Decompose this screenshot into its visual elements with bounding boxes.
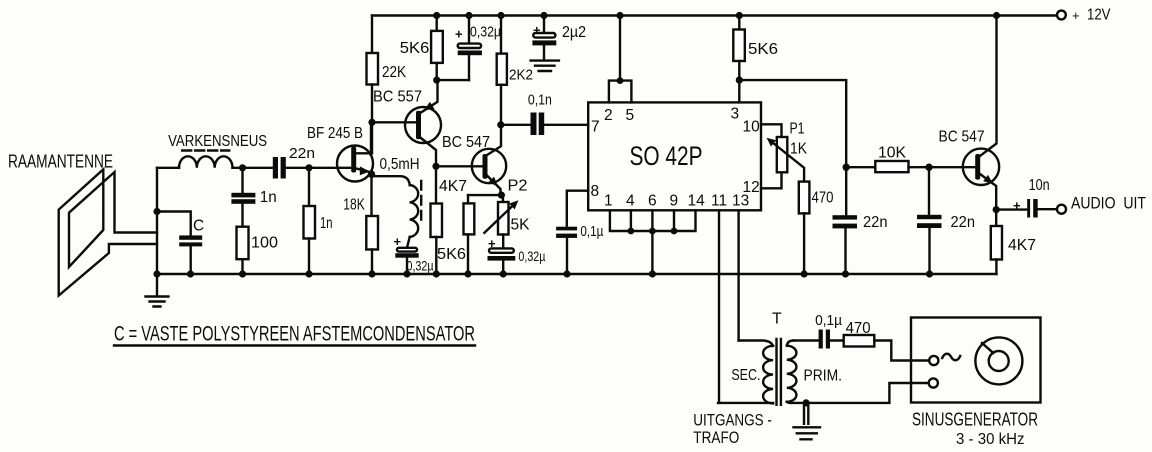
svg-text:3: 3 bbox=[731, 106, 740, 123]
svg-text:6: 6 bbox=[648, 193, 657, 210]
svg-text:100: 100 bbox=[251, 235, 278, 252]
svg-text:22n: 22n bbox=[863, 214, 888, 231]
svg-text:2K2: 2K2 bbox=[509, 67, 533, 84]
svg-text:0,1µ: 0,1µ bbox=[580, 224, 604, 240]
svg-text:18K: 18K bbox=[343, 197, 365, 214]
svg-text:10K: 10K bbox=[878, 145, 906, 162]
svg-text:1: 1 bbox=[604, 193, 613, 210]
svg-text:13: 13 bbox=[732, 193, 749, 210]
svg-text:0,32µ: 0,32µ bbox=[407, 258, 434, 274]
svg-text:P1: P1 bbox=[790, 121, 805, 138]
svg-text:C: C bbox=[193, 218, 204, 235]
svg-text:22K: 22K bbox=[382, 64, 406, 81]
svg-text:0,32µ: 0,32µ bbox=[470, 24, 501, 41]
svg-text:0,1µ: 0,1µ bbox=[815, 312, 842, 329]
svg-text:VARKENSNEUS: VARKENSNEUS bbox=[168, 133, 267, 150]
svg-text:1n: 1n bbox=[320, 215, 333, 232]
svg-text:22n: 22n bbox=[951, 214, 976, 231]
svg-text:+: + bbox=[1072, 8, 1080, 23]
svg-text:0,1n: 0,1n bbox=[528, 93, 552, 109]
svg-text:5K: 5K bbox=[511, 217, 530, 234]
svg-text:+: + bbox=[455, 27, 463, 42]
svg-text:5K6: 5K6 bbox=[437, 246, 466, 263]
svg-text:TRAFO: TRAFO bbox=[693, 428, 739, 447]
svg-text:7: 7 bbox=[591, 119, 600, 136]
svg-text:T: T bbox=[772, 311, 782, 328]
svg-text:11: 11 bbox=[711, 193, 727, 210]
svg-text:AUDIO UIT: AUDIO UIT bbox=[1071, 195, 1146, 213]
svg-text:22n: 22n bbox=[289, 145, 315, 162]
svg-text:1n: 1n bbox=[260, 189, 277, 206]
svg-text:SEC.: SEC. bbox=[731, 367, 760, 384]
svg-text:3 - 30 kHz: 3 - 30 kHz bbox=[956, 431, 1025, 448]
svg-text:+: + bbox=[1013, 198, 1021, 213]
svg-text:0,32µ: 0,32µ bbox=[518, 248, 545, 264]
svg-text:2µ2: 2µ2 bbox=[562, 24, 586, 41]
svg-text:SO 42P: SO 42P bbox=[630, 141, 703, 171]
svg-text:5: 5 bbox=[626, 107, 635, 124]
svg-text:BC 547: BC 547 bbox=[442, 134, 490, 151]
svg-text:1K: 1K bbox=[790, 141, 807, 158]
svg-text:10: 10 bbox=[743, 119, 761, 136]
svg-text:8: 8 bbox=[591, 183, 600, 200]
svg-text:10n: 10n bbox=[1029, 177, 1050, 194]
svg-text:PRIM.: PRIM. bbox=[804, 368, 843, 385]
svg-text:BC 557: BC 557 bbox=[373, 89, 422, 106]
svg-text:12V: 12V bbox=[1087, 7, 1111, 24]
svg-text:RAAMANTENNE: RAAMANTENNE bbox=[8, 152, 113, 172]
svg-text:5K6: 5K6 bbox=[400, 40, 430, 57]
svg-text:14: 14 bbox=[688, 193, 706, 210]
svg-text:BF 245 B: BF 245 B bbox=[307, 125, 363, 142]
svg-text:UITGANGS -: UITGANGS - bbox=[693, 411, 772, 430]
svg-text:5K6: 5K6 bbox=[748, 41, 778, 58]
svg-text:C = VASTE POLYSTYREEN AFSTEMCO: C = VASTE POLYSTYREEN AFSTEMCONDENSATOR bbox=[114, 323, 475, 346]
svg-text:BC 547: BC 547 bbox=[939, 129, 985, 146]
svg-text:4K7: 4K7 bbox=[439, 178, 467, 195]
svg-text:2: 2 bbox=[604, 107, 613, 124]
svg-text:0,5mH: 0,5mH bbox=[380, 156, 420, 173]
svg-text:P2: P2 bbox=[508, 178, 528, 195]
svg-text:9: 9 bbox=[670, 193, 679, 210]
svg-text:470: 470 bbox=[846, 320, 871, 337]
svg-text:4K7: 4K7 bbox=[1008, 237, 1036, 254]
svg-text:4: 4 bbox=[626, 193, 635, 210]
svg-text:SINUSGENERATOR: SINUSGENERATOR bbox=[912, 410, 1038, 430]
svg-text:470: 470 bbox=[812, 190, 834, 207]
